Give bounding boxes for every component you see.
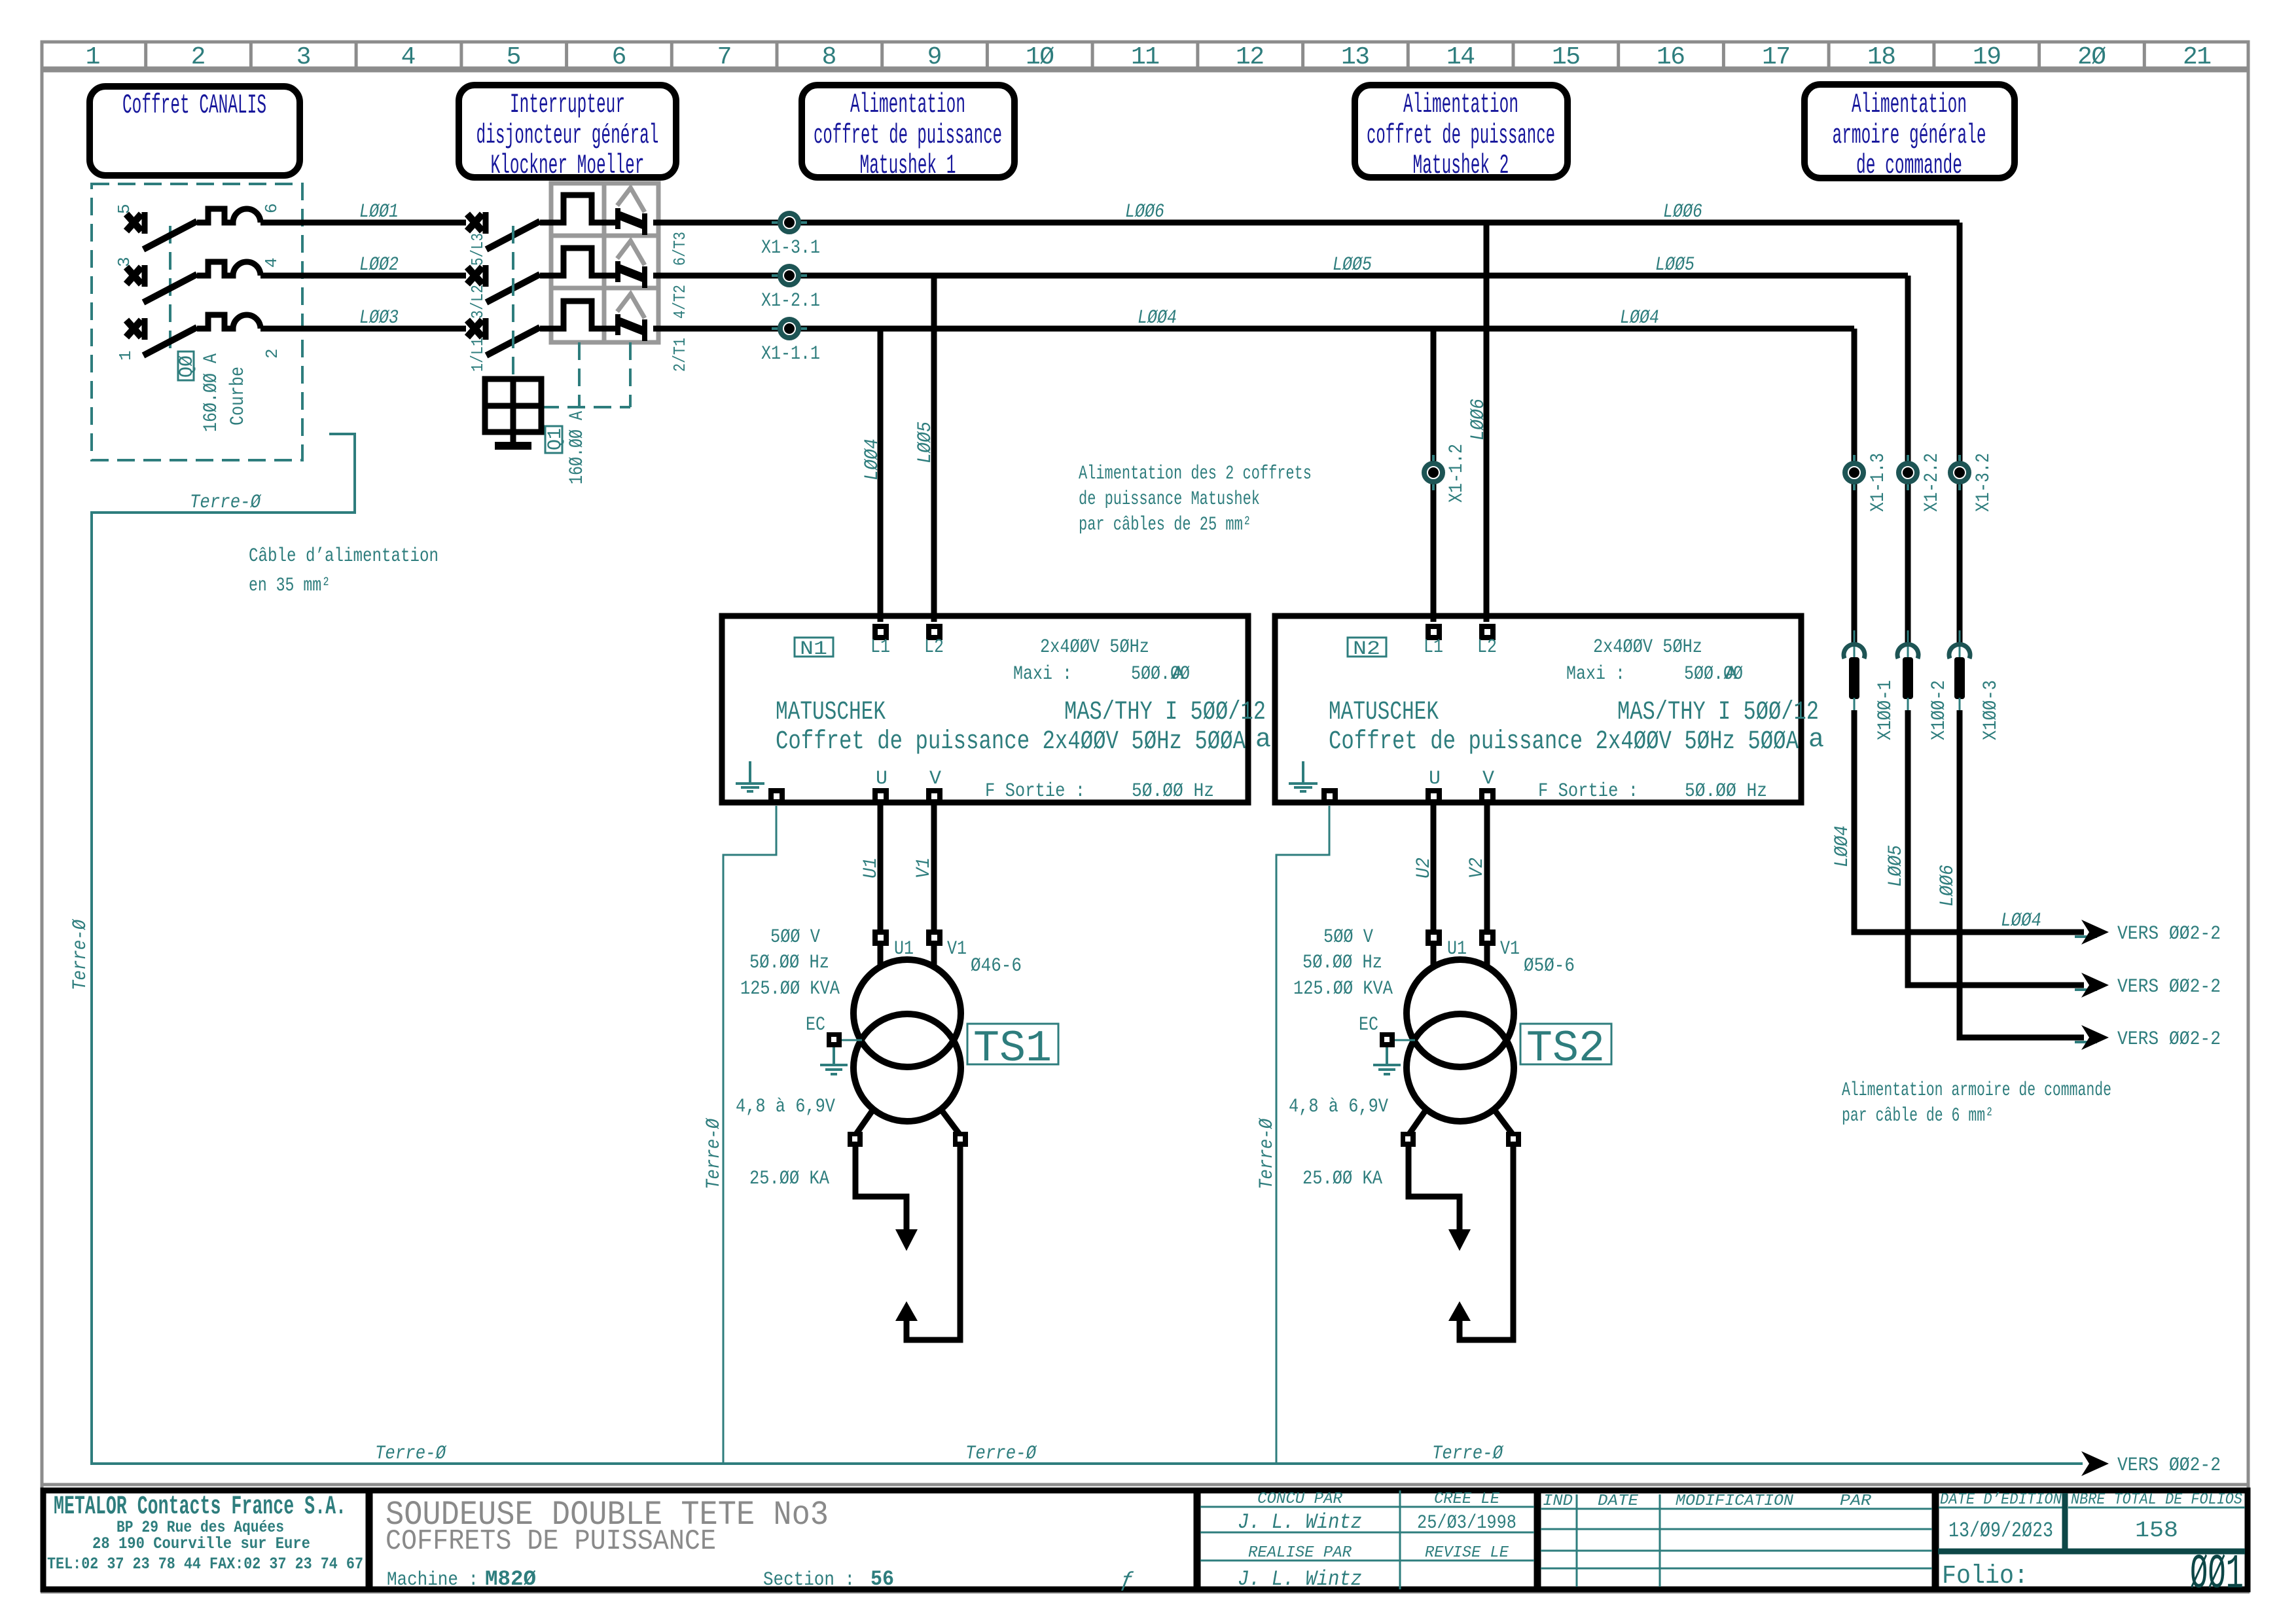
N1 terminal V <box>926 788 942 804</box>
label box: Alimentation armoire generale de commande <box>1804 84 2015 181</box>
TS1 terminal U1 <box>872 929 889 946</box>
Q0 pole 1 terminal X (pin 5) <box>126 212 145 234</box>
svg-text:15: 15 <box>1552 43 1581 71</box>
switch-fuse Q0 dashed enclosure (Coffret CANALIS) <box>92 184 302 460</box>
svg-text:LØØ4: LØØ4 <box>1138 307 1177 329</box>
svg-text:12: 12 <box>1236 43 1265 71</box>
svg-text:LØØ5: LØØ5 <box>1655 254 1695 276</box>
Q1 pole 3 terminal X <box>467 318 486 340</box>
svg-text:6: 6 <box>262 203 281 213</box>
svg-text:LØØ6: LØØ6 <box>1937 865 1959 907</box>
svg-text:13/Ø9/2Ø23: 13/Ø9/2Ø23 <box>1948 1519 2053 1543</box>
N1 PE ground symbol <box>736 761 764 791</box>
TS1 reference label box <box>967 1024 1058 1064</box>
svg-text:MATUSCHEK: MATUSCHEK <box>1329 698 1439 727</box>
svg-text:de commande: de commande <box>1856 150 1962 181</box>
svg-text:6/T3: 6/T3 <box>670 232 690 266</box>
svg-text:11: 11 <box>1131 43 1160 71</box>
svg-text:CREE LE: CREE LE <box>1434 1490 1500 1508</box>
Q1 reference label box <box>545 426 562 453</box>
wire L003 (Q0 to Q1) <box>260 326 466 332</box>
svg-text:LØØ2: LØØ2 <box>359 254 399 276</box>
wire L004 right branch <box>1852 329 1857 645</box>
svg-text:Coffret CANALIS: Coffret CANALIS <box>122 90 266 121</box>
Q1 pole 3 contact <box>617 294 661 341</box>
svg-text:X1-2.1: X1-2.1 <box>761 290 820 312</box>
svg-text:2: 2 <box>262 348 282 359</box>
Q0 reference label box <box>178 352 194 380</box>
svg-text:1: 1 <box>86 43 101 71</box>
Q1 pole 2 blade <box>486 274 540 302</box>
svg-text:Ø5Ø-6: Ø5Ø-6 <box>1524 955 1575 977</box>
svg-text:TS2: TS2 <box>1526 1024 1605 1074</box>
switch-fuse Q0 linkage <box>169 226 171 357</box>
svg-text:Coffret de puissance 2x4ØØV 5Ø: Coffret de puissance 2x4ØØV 5ØHz 5ØØA <box>1329 727 1799 757</box>
svg-text:5Ø.ØØ Hz: 5Ø.ØØ Hz <box>749 952 829 974</box>
svg-text:J. L. Wintz: J. L. Wintz <box>1238 1567 1362 1591</box>
wire L001 (Q0 to Q1) <box>260 220 466 226</box>
svg-text:X1-2.2: X1-2.2 <box>1921 453 1943 512</box>
svg-text:QØ: QØ <box>176 355 198 378</box>
svg-text:4/T2: 4/T2 <box>670 285 690 319</box>
node X1-3.1 <box>761 213 820 259</box>
svg-text:Alimentation: Alimentation <box>1403 89 1518 120</box>
wire L005 right branch <box>1905 276 1911 645</box>
wire U1 (N1 U to TS1) <box>878 804 884 933</box>
svg-text:Alimentation: Alimentation <box>850 89 965 120</box>
svg-text:3: 3 <box>115 257 134 267</box>
TS2 terminal U1 <box>1426 929 1442 946</box>
svg-text:13: 13 <box>1341 43 1370 71</box>
wire L002 (Q0 to Q1) <box>260 273 466 279</box>
svg-text:LØØ3: LØØ3 <box>359 307 399 329</box>
wire L006 drop to N2 L2 <box>1484 223 1490 622</box>
svg-text:X1-3.1: X1-3.1 <box>761 237 820 259</box>
TS2 secondary lead right <box>1496 1111 1513 1135</box>
Q0 pole 3 blade <box>143 327 197 355</box>
wire N2 PE to Terre-0 <box>1276 806 1329 1464</box>
off-page arrow VERS 002-2 (L006) <box>2081 1025 2109 1050</box>
N2 terminal PE <box>1321 788 1338 804</box>
wire L006 bus <box>661 220 1960 226</box>
svg-text:en 35 mm²: en 35 mm² <box>249 575 331 597</box>
Q1 pole 3 thermal element <box>540 301 616 329</box>
node X1-1.1 <box>761 319 820 365</box>
svg-text:LØØ5: LØØ5 <box>1885 845 1907 887</box>
svg-text:N2: N2 <box>1353 638 1380 660</box>
TS1 output wire down-arrow <box>855 1147 906 1231</box>
connector X1-3.2 <box>1950 453 1995 512</box>
svg-text:IND: IND <box>1543 1492 1573 1510</box>
TS1 secondary winding <box>853 1014 961 1121</box>
svg-text:DATE D’EDITION: DATE D’EDITION <box>1940 1491 2062 1509</box>
N1 terminal L2 <box>926 624 942 640</box>
svg-text:56: 56 <box>870 1567 894 1591</box>
svg-text:1/L1: 1/L1 <box>468 338 488 372</box>
Q0 pole 2 blade <box>143 274 197 302</box>
svg-text:U: U <box>876 768 888 790</box>
note: Cable d'alimentation en 35 mm2 <box>249 545 439 597</box>
svg-text:6: 6 <box>612 43 627 71</box>
svg-text:par câble de 6 mm²: par câble de 6 mm² <box>1842 1105 1994 1127</box>
svg-text:8: 8 <box>822 43 837 71</box>
N2 terminal L1 <box>1426 624 1442 640</box>
TS2 terminal EC <box>1380 1032 1395 1047</box>
wire L005 drop to N1 L2 <box>931 276 937 622</box>
svg-text:14: 14 <box>1446 43 1475 71</box>
connector X1-1.2 <box>1424 444 1468 503</box>
svg-text:U1: U1 <box>860 857 882 878</box>
Q1 pole 1 terminal X (pin 1/L1 top) <box>467 212 486 234</box>
svg-text:Alimentation armoire de comman: Alimentation armoire de commande <box>1842 1079 2111 1102</box>
N1 terminal L1 <box>872 624 889 640</box>
svg-text:X1-1.1: X1-1.1 <box>761 343 820 365</box>
N1 reference label <box>795 638 833 657</box>
svg-text:EC: EC <box>1359 1014 1378 1036</box>
svg-text:F Sortie :: F Sortie : <box>985 780 1085 803</box>
svg-text:V1: V1 <box>1500 938 1520 960</box>
svg-text:16: 16 <box>1657 43 1685 71</box>
Q1 pole 1 contact <box>617 188 661 235</box>
wire L006 to folio 002 <box>1960 710 2084 1038</box>
svg-text:X1-1.3: X1-1.3 <box>1867 453 1890 512</box>
svg-text:LØØ6: LØØ6 <box>1663 201 1702 223</box>
svg-text:ØØ1: ØØ1 <box>2190 1547 2244 1602</box>
svg-text:N1: N1 <box>800 638 827 660</box>
node X1-2.1 <box>761 266 820 312</box>
svg-text:Terre-Ø: Terre-Ø <box>1432 1443 1504 1465</box>
TS2 output wire down-arrow <box>1408 1147 1460 1231</box>
svg-text:25/Ø3/1998: 25/Ø3/1998 <box>1417 1512 1516 1534</box>
svg-text:Maxi :: Maxi : <box>1013 663 1072 685</box>
svg-text:LØØ5: LØØ5 <box>1333 254 1372 276</box>
svg-text:REVISE LE: REVISE LE <box>1425 1544 1509 1562</box>
svg-text:28 190 Courville sur Eure: 28 190 Courville sur Eure <box>92 1534 310 1553</box>
svg-text:EC: EC <box>806 1014 825 1036</box>
svg-text:19: 19 <box>1973 43 2001 71</box>
fuse X100-3 <box>1949 630 2002 740</box>
svg-text:X1-1.2: X1-1.2 <box>1446 444 1468 503</box>
wire L004 bus <box>661 326 1854 332</box>
svg-text:LØØ6: LØØ6 <box>1467 399 1490 441</box>
N1 terminal U <box>872 788 889 804</box>
wire V2 (N2 V to TS2) <box>1484 804 1490 933</box>
svg-text:7: 7 <box>717 43 732 71</box>
svg-text:18: 18 <box>1867 43 1896 71</box>
svg-text:A: A <box>1725 663 1737 685</box>
N2 reference label <box>1348 638 1386 657</box>
svg-text:16Ø.ØØ A: 16Ø.ØØ A <box>200 353 223 432</box>
title block <box>43 1490 2248 1602</box>
svg-text:Q1: Q1 <box>545 428 567 450</box>
svg-text:LØØ6: LØØ6 <box>1125 201 1164 223</box>
note: Alimentation des 2 coffrets de puissance Matushek par cables de 25 mm2 <box>1079 463 1312 536</box>
svg-text:4: 4 <box>262 257 281 268</box>
Q1 linkage to operator dashed <box>541 342 630 407</box>
svg-text:1Ø: 1Ø <box>1026 43 1054 71</box>
svg-text:F Sortie :: F Sortie : <box>1538 780 1638 803</box>
svg-text:Matushek 2: Matushek 2 <box>1413 150 1509 181</box>
label box: Interrupteur disjoncteur general Klockner Moeller <box>459 85 676 181</box>
svg-text:2x4ØØV 5ØHz: 2x4ØØV 5ØHz <box>1593 636 1702 659</box>
wire L004 drop to N2 L1 <box>1431 329 1437 622</box>
svg-text:Folio:: Folio: <box>1942 1562 2028 1591</box>
svg-text:Klockner Moeller: Klockner Moeller <box>491 150 645 181</box>
svg-text:2Ø: 2Ø <box>2077 43 2106 71</box>
N2 terminal V <box>1479 788 1496 804</box>
svg-text:Terre-Ø: Terre-Ø <box>375 1443 447 1465</box>
svg-text:PAR: PAR <box>1840 1492 1872 1510</box>
Q1 motor operator <box>485 379 541 446</box>
svg-text:125.ØØ KVA: 125.ØØ KVA <box>1293 978 1393 1000</box>
off-page arrow VERS 002-2 (Terre-0) <box>2081 1451 2109 1476</box>
TS2 return wire up-arrow <box>1460 1147 1513 1340</box>
wire L006 right branch <box>1957 223 1963 645</box>
TS1 terminal EC <box>827 1032 842 1047</box>
N1 terminal PE <box>768 788 785 804</box>
svg-text:X1ØØ-1: X1ØØ-1 <box>1874 680 1897 740</box>
power unit N2 (MATUSCHEK coffret de puissance 2) <box>1275 616 1824 804</box>
svg-text:de puissance Matushek: de puissance Matushek <box>1079 488 1260 511</box>
Q1 linkage dashed <box>512 226 514 379</box>
svg-text:V: V <box>929 768 941 790</box>
wire L005 to folio 002 <box>1908 710 2084 985</box>
connector X1-1.3 <box>1845 453 1890 512</box>
svg-text:Interrupteur: Interrupteur <box>510 89 625 120</box>
svg-text:VERS ØØ2-2: VERS ØØ2-2 <box>2117 923 2221 945</box>
svg-text:125.ØØ KVA: 125.ØØ KVA <box>740 978 840 1000</box>
Q1 pole 1 thermal element <box>540 195 616 223</box>
Q0 pole 1 blade <box>143 221 197 249</box>
Q1 pole 2 terminal X <box>467 265 486 287</box>
wire U2 (N2 U to TS2) <box>1431 804 1437 933</box>
svg-text:VERS ØØ2-2: VERS ØØ2-2 <box>2117 1454 2221 1477</box>
fuse X100-2 <box>1897 630 1950 740</box>
svg-text:2: 2 <box>191 43 206 71</box>
svg-text:Terre-Ø: Terre-Ø <box>1256 1117 1278 1189</box>
svg-text:X1ØØ-2: X1ØØ-2 <box>1928 680 1950 740</box>
svg-text:16Ø.ØØ A: 16Ø.ØØ A <box>566 411 588 484</box>
svg-text:X1ØØ-3: X1ØØ-3 <box>1980 680 2002 740</box>
svg-text:L2: L2 <box>924 636 944 659</box>
wire N1 PE to Terre-0 <box>723 806 776 1464</box>
svg-text:Coffret de puissance 2x4ØØV 5Ø: Coffret de puissance 2x4ØØV 5ØHz 5ØØA <box>776 727 1246 757</box>
svg-text:L1: L1 <box>1424 636 1443 659</box>
svg-text:disjoncteur général: disjoncteur général <box>476 120 659 151</box>
svg-text:LØØ5: LØØ5 <box>914 422 937 463</box>
svg-text:VERS ØØ2-2: VERS ØØ2-2 <box>2117 1028 2221 1051</box>
svg-text:25.ØØ KA: 25.ØØ KA <box>1302 1168 1382 1190</box>
svg-text:5Ø.ØØ Hz: 5Ø.ØØ Hz <box>1685 780 1767 803</box>
svg-text:5: 5 <box>115 204 134 214</box>
svg-text:3/L2: 3/L2 <box>468 285 488 319</box>
svg-text:158: 158 <box>2135 1519 2178 1543</box>
off-page arrow VERS 002-2 (L005) <box>2081 973 2109 998</box>
svg-text:DATE: DATE <box>1598 1492 1639 1510</box>
wire V1 (N1 V to TS1) <box>931 804 937 933</box>
TS1 terminal V1 <box>926 929 942 946</box>
TS2 primary winding <box>1431 946 1437 967</box>
svg-text:4,8 à 6,9V: 4,8 à 6,9V <box>1289 1096 1388 1118</box>
svg-text:L1: L1 <box>870 636 890 659</box>
svg-text:V1: V1 <box>947 938 967 960</box>
label box: Coffret CANALIS <box>90 86 300 175</box>
TS1 primary winding <box>878 946 884 967</box>
svg-text:NBRE TOTAL DE FOLIOS: NBRE TOTAL DE FOLIOS <box>2071 1491 2242 1509</box>
svg-text:1: 1 <box>116 350 135 361</box>
svg-text:par câbles de 25 mm²: par câbles de 25 mm² <box>1079 514 1251 536</box>
Q0 pole 3 fuse element <box>197 315 260 329</box>
TS2 secondary winding <box>1407 1014 1514 1121</box>
svg-text:J. L. Wintz: J. L. Wintz <box>1238 1510 1362 1534</box>
svg-text:Matushek 1: Matushek 1 <box>860 150 956 181</box>
svg-text:5Ø.ØØ Hz: 5Ø.ØØ Hz <box>1132 780 1214 803</box>
Q0 pole 2 terminal X (pin 3) <box>126 265 145 287</box>
svg-text:MAS/THY I 5ØØ/12: MAS/THY I 5ØØ/12 <box>1064 698 1266 727</box>
svg-text:V1: V1 <box>913 857 935 878</box>
TS1 EC ground <box>820 1047 848 1074</box>
svg-text:MAS/THY I 5ØØ/12: MAS/THY I 5ØØ/12 <box>1617 698 1819 727</box>
svg-text:LØØ4: LØØ4 <box>2001 910 2041 932</box>
revision table headers <box>1248 1490 2242 1562</box>
svg-text:LØØ4: LØØ4 <box>861 439 884 480</box>
svg-text:2/T1: 2/T1 <box>670 338 690 372</box>
svg-text:Terre-Ø: Terre-Ø <box>190 492 262 514</box>
transformer TS1 <box>736 926 1058 1340</box>
svg-text:LØØ4: LØØ4 <box>1831 825 1854 867</box>
fuse X100-1 <box>1844 630 1897 740</box>
TS1 secondary lead left <box>855 1111 872 1135</box>
label box: Alimentation coffret de puissance Matushek 2 <box>1355 85 1568 181</box>
svg-text:Alimentation: Alimentation <box>1852 89 1967 120</box>
svg-text:4,8 à 6,9V: 4,8 à 6,9V <box>736 1096 835 1118</box>
svg-text:5/L3: 5/L3 <box>468 233 488 266</box>
svg-text:2x4ØØV 5ØHz: 2x4ØØV 5ØHz <box>1040 636 1149 659</box>
svg-text:Terre-Ø: Terre-Ø <box>965 1443 1037 1465</box>
TS1 secondary lead right <box>942 1111 960 1135</box>
note: Alimentation armoire de commande par cable de 6 mm2 <box>1842 1079 2111 1127</box>
svg-text:Alimentation des 2 coffrets: Alimentation des 2 coffrets <box>1079 463 1312 485</box>
off-page arrow VERS 002-2 (L004) <box>2081 920 2109 945</box>
TS2 terminal V1 <box>1479 929 1496 946</box>
N2 terminal U <box>1426 788 1442 804</box>
svg-text:Section :: Section : <box>763 1569 855 1591</box>
svg-text:9: 9 <box>927 43 942 71</box>
svg-text:LØØ4: LØØ4 <box>1620 307 1659 329</box>
svg-text:17: 17 <box>1762 43 1791 71</box>
label box: Alimentation coffret de puissance Matushek 1 <box>802 85 1014 181</box>
svg-text:Maxi :: Maxi : <box>1566 663 1625 685</box>
svg-text:A: A <box>1172 663 1184 685</box>
svg-text:4: 4 <box>401 43 416 71</box>
circuit breaker Q1 housing <box>551 183 658 342</box>
svg-text:25.ØØ KA: 25.ØØ KA <box>749 1168 829 1190</box>
svg-text:Terre-Ø: Terre-Ø <box>703 1117 725 1189</box>
svg-text:Terre-Ø: Terre-Ø <box>69 918 92 990</box>
svg-text:coffret de puissance: coffret de puissance <box>1367 120 1555 151</box>
Q1 pole 3 blade <box>486 327 540 355</box>
svg-text:MODIFICATION: MODIFICATION <box>1676 1492 1794 1510</box>
svg-text:M82Ø: M82Ø <box>485 1567 536 1591</box>
N2 terminal L2 <box>1479 624 1496 640</box>
transformer TS2 <box>1289 926 1611 1340</box>
svg-text:5Ø.ØØ Hz: 5Ø.ØØ Hz <box>1302 952 1382 974</box>
svg-text:V: V <box>1482 768 1494 790</box>
wire L005 bus <box>661 273 1908 279</box>
power unit N1 (MATUSCHEK coffret de puissance 1) <box>722 616 1271 804</box>
svg-text:TEL:02 37 23 78 44 FAX:02 37 2: TEL:02 37 23 78 44 FAX:02 37 23 74 67 <box>47 1555 363 1574</box>
svg-text:5: 5 <box>507 43 522 71</box>
svg-text:Ø46-6: Ø46-6 <box>971 955 1022 977</box>
svg-text:armoire générale: armoire générale <box>1833 120 1986 151</box>
svg-text:L2: L2 <box>1477 636 1497 659</box>
svg-text:5ØØ V: 5ØØ V <box>1323 926 1373 948</box>
svg-text:VERS ØØ2-2: VERS ØØ2-2 <box>2117 976 2221 998</box>
svg-text:U2: U2 <box>1413 857 1435 878</box>
svg-text:REALISE PAR: REALISE PAR <box>1248 1544 1352 1562</box>
svg-text:X1-3.2: X1-3.2 <box>1973 453 1995 512</box>
TS2 EC ground <box>1373 1047 1401 1074</box>
svg-text:LØØ1: LØØ1 <box>359 201 399 223</box>
svg-text:Câble d’alimentation: Câble d’alimentation <box>249 545 439 568</box>
Q1 pole 2 contact <box>617 241 661 288</box>
wire L004 to folio 002 <box>1854 710 2084 932</box>
svg-text:COFFRETS DE PUISSANCE: COFFRETS DE PUISSANCE <box>386 1525 716 1558</box>
svg-text:a: a <box>1255 725 1271 755</box>
TS1 return wire up-arrow <box>906 1147 960 1340</box>
svg-text:21: 21 <box>2183 43 2212 71</box>
TS2 reference label box <box>1520 1024 1611 1064</box>
ground net Terre-0 main run <box>92 434 2083 1464</box>
TS2 secondary lead left <box>1408 1111 1425 1135</box>
Q1 pole 1 blade <box>486 221 540 249</box>
svg-text:coffret de puissance: coffret de puissance <box>814 120 1002 151</box>
Q1 pole 2 thermal element <box>540 248 616 276</box>
svg-text:a: a <box>1808 725 1824 755</box>
svg-text:U: U <box>1429 768 1441 790</box>
svg-text:5ØØ V: 5ØØ V <box>770 926 820 948</box>
N2 PE ground symbol <box>1289 761 1318 791</box>
svg-text:Courbe: Courbe <box>227 367 249 425</box>
connector X1-2.2 <box>1899 453 1943 512</box>
svg-text:TS1: TS1 <box>973 1024 1052 1074</box>
svg-text:CONCU PAR: CONCU PAR <box>1257 1490 1343 1508</box>
svg-text:Machine :: Machine : <box>387 1569 478 1591</box>
svg-text:3: 3 <box>296 43 312 71</box>
Q0 pole 3 terminal X (pin 1) <box>126 318 145 340</box>
svg-text:ƒ: ƒ <box>1121 1568 1134 1593</box>
Q0 pole 2 fuse element <box>197 262 260 276</box>
svg-text:MATUSCHEK: MATUSCHEK <box>776 698 886 727</box>
wire L004 drop to N1 L1 <box>878 329 884 622</box>
Q0 pole 1 fuse element <box>197 209 260 223</box>
svg-text:V2: V2 <box>1466 857 1488 878</box>
